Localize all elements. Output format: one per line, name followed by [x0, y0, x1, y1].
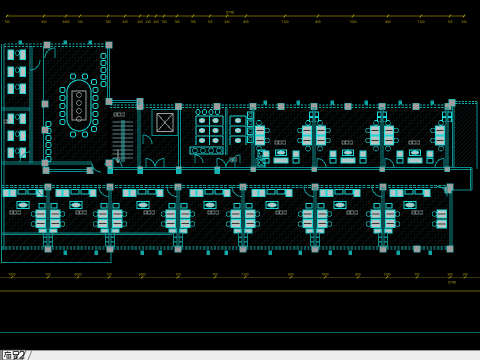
partition cabinets below pod x=178: [173, 233, 177, 237]
svg-text:700: 700: [414, 272, 420, 276]
svg-text:700: 700: [212, 272, 218, 276]
svg-text:3400: 3400: [138, 272, 145, 276]
stair room right wall: [138, 107, 140, 168]
wall: corridor right stub vertical: [471, 168, 473, 191]
labels: bottom offices: [10, 211, 13, 214]
wall: conference room left: [43, 46, 45, 163]
svg-text:780: 780: [105, 20, 111, 24]
wall: bottom-left sub-room divider: [2, 233, 173, 235]
label: stair room: [114, 113, 117, 116]
svg-text:720: 720: [106, 272, 112, 276]
partition cabinets x=382: [378, 112, 382, 116]
wall jog at stair top: [138, 101, 140, 106]
hatched floor: left offices: [3, 47, 30, 162]
bottom dimension line 2: [0, 290, 480, 292]
corridor door arcs near stairs: [146, 159, 155, 168]
hatched floor: conference room: [45, 47, 108, 162]
svg-text:260: 260: [137, 20, 143, 24]
svg-text:700: 700: [447, 20, 453, 24]
svg-text:130: 130: [145, 20, 151, 24]
svg-text:340: 340: [461, 20, 467, 24]
hatched floor: stair room: [111, 109, 139, 167]
workstation pod pair at bottom partition x=315: [303, 210, 313, 218]
top furniture group x=320: [320, 190, 326, 197]
svg-text:800: 800: [385, 20, 391, 24]
toilet mop sinks: [258, 150, 265, 157]
columns: left corridor: [43, 167, 49, 173]
bottom dimension ticks: [11, 276, 13, 279]
wall: right outer vertical: [476, 102, 478, 170]
top furniture group x=390: [390, 190, 396, 197]
svg-text:5748: 5748: [226, 11, 234, 15]
stairs treads: [113, 122, 134, 158]
svg-text:7100: 7100: [417, 20, 424, 24]
wall: bottom-left strip outline: [2, 250, 112, 263]
window mullion ticks below bottom wall: [64, 251, 68, 256]
corridor wall columns: [108, 167, 113, 172]
wall: left block bottom (conference + offices): [2, 162, 93, 164]
workstation pod pair at bottom partition x=383: [371, 210, 381, 218]
svg-text:5748: 5748: [448, 281, 456, 285]
workstation pod at right wall: [437, 210, 447, 218]
label: toilet: [230, 158, 233, 161]
partition cabinets below pod x=110: [105, 233, 109, 237]
top furniture group x=252: [252, 190, 258, 197]
svg-text:750: 750: [4, 20, 10, 24]
label: upper office 348: [342, 141, 345, 144]
svg-text:720: 720: [45, 272, 51, 276]
wall: bottom row top (corridor side): [2, 186, 453, 188]
svg-text:6000: 6000: [74, 272, 81, 276]
svg-text:7000: 7000: [349, 20, 356, 24]
wall: left block top outer (window band): [4, 44, 112, 46]
conference table: [67, 80, 91, 131]
room texture grids: [3, 47, 108, 162]
left offices door arcs: [30, 60, 40, 70]
sofa set upper office cx=415: [397, 151, 403, 157]
svg-text:750: 750: [190, 20, 196, 24]
sofa set upper office cx=348: [330, 151, 336, 157]
hatched floor: upper offices row: [248, 109, 452, 167]
chairs along conference left wall: [46, 122, 51, 127]
label: left office: [4, 120, 7, 123]
label: upper office 415: [409, 141, 412, 144]
svg-text:740: 740: [77, 20, 83, 24]
stairs center divider: [121, 120, 123, 162]
elevator shaft: [152, 110, 178, 136]
partition cabinets below pod x=243: [238, 233, 242, 237]
wall: top-right stepped edge: [452, 102, 478, 104]
workstation pod pair at upper partition x=382: [371, 126, 380, 135]
hatched floor: bottom office row: [3, 189, 451, 247]
bottom office partitions: [47, 187, 49, 248]
window mullion ticks above top wall (left block): [19, 41, 23, 45]
workstation pod pair at bottom partition x=48: [36, 210, 46, 218]
wall: left corridor segment: [44, 170, 92, 172]
svg-text:140: 140: [462, 272, 468, 276]
svg-text:800: 800: [288, 272, 294, 276]
wall: bottom row bottom outer (window band): [2, 247, 453, 249]
svg-text:700: 700: [207, 20, 213, 24]
svg-text:7100: 7100: [383, 272, 390, 276]
partition cabinets x=314: [310, 112, 314, 116]
partition cabinets below pod x=383: [378, 233, 382, 237]
hatched floor: bottom-left strip: [1, 251, 111, 262]
svg-text:500: 500: [41, 20, 47, 24]
wall: left outer vertical: [2, 44, 4, 250]
svg-text:340: 340: [224, 20, 230, 24]
toilet stall bank B: [230, 116, 246, 125]
svg-text:800: 800: [243, 20, 249, 24]
partition cabinets below pod x=315: [310, 233, 314, 237]
workstation pod left of right room wall x=447: [436, 126, 445, 135]
upper office partitions: [252, 107, 254, 168]
hatched floor: elevator lobby and toilets: [140, 109, 248, 167]
elevator lobby door arc: [143, 135, 152, 144]
elevator lobby wall: [179, 107, 181, 168]
wall: bottom row right: [450, 187, 452, 248]
wall: left offices divider: [2, 108, 31, 110]
conference room door top-left arc: [45, 48, 55, 58]
bottom office door arcs: [37, 187, 47, 197]
conference chairs around table: [60, 88, 65, 93]
stairs arrow: [116, 150, 120, 163]
workstation pod right of toilet wall x=253: [256, 126, 265, 135]
wall: left offices / conference divider: [30, 46, 32, 163]
svg-text:800: 800: [355, 272, 361, 276]
bright corridor columns: [108, 169, 113, 174]
toilet door arcs: [195, 155, 203, 163]
svg-text:750: 750: [161, 20, 167, 24]
toilet stall bank A partitions: [196, 116, 223, 125]
window mullion ticks above top wall (right wing): [264, 101, 268, 105]
top dimension ticks: [6, 15, 8, 18]
svg-text:260: 260: [153, 20, 159, 24]
wall: corridor top (upper rooms bottom): [110, 168, 472, 170]
left office 2 desks: [8, 114, 14, 124]
left office 1 desks: [8, 50, 14, 60]
wall: right wing top outer (window band): [110, 105, 453, 107]
toilet sink counter: [190, 147, 223, 154]
partition cabinets below pod x=48: [43, 233, 47, 237]
wall: upper right room left: [453, 102, 455, 168]
svg-text:7100: 7100: [281, 20, 288, 24]
toilet divider wall: [226, 107, 228, 155]
top furniture group x=56: [56, 190, 62, 197]
conference table decor: [77, 93, 82, 98]
svg-text:800: 800: [315, 20, 321, 24]
toilet urinals top: [196, 109, 200, 114]
svg-text:7100: 7100: [241, 272, 248, 276]
partition cabinets x=447: [443, 112, 447, 116]
wall: corridor right stub bottom: [452, 189, 472, 191]
upper office door arcs into corridor: [256, 159, 265, 168]
svg-text:340: 340: [447, 272, 453, 276]
workstation pod pair at bottom partition x=178: [166, 210, 176, 218]
svg-text:720: 720: [175, 272, 181, 276]
svg-text:340: 340: [122, 20, 128, 24]
svg-text:7000: 7000: [8, 272, 15, 276]
label: upper office 281: [275, 141, 278, 144]
layout tab 布局2: [0, 349, 70, 360]
workstation pod pair at bottom partition x=110: [98, 210, 108, 218]
top furniture group x=3: [3, 190, 9, 197]
chairs along conference right wall: [101, 54, 106, 59]
elevator car with X: [157, 114, 173, 132]
sofa set upper office cx=281: [263, 151, 269, 157]
toilet right sink stack: [248, 112, 254, 119]
column grid: [44, 42, 50, 48]
viewport bottom teal separator line: [0, 332, 480, 333]
svg-text:6450: 6450: [62, 20, 69, 24]
svg-text:780: 780: [174, 20, 180, 24]
stair room door arc: [113, 159, 122, 168]
conference bottom door arc: [92, 163, 101, 172]
wall: stair room top: [108, 101, 140, 103]
workstation pod pair at upper partition x=314: [303, 126, 312, 135]
bottom dimension line 1: [0, 276, 480, 278]
svg-text:7000: 7000: [321, 272, 328, 276]
hatched floor: upper right room: [454, 103, 477, 166]
layout tab bar: [0, 350, 480, 360]
top furniture group x=190: [190, 190, 196, 197]
wall: conference room right: [108, 46, 110, 103]
workstation pod pair at bottom partition x=243: [231, 210, 241, 218]
top furniture group x=123: [123, 190, 129, 197]
top dimension line: [6, 15, 465, 17]
